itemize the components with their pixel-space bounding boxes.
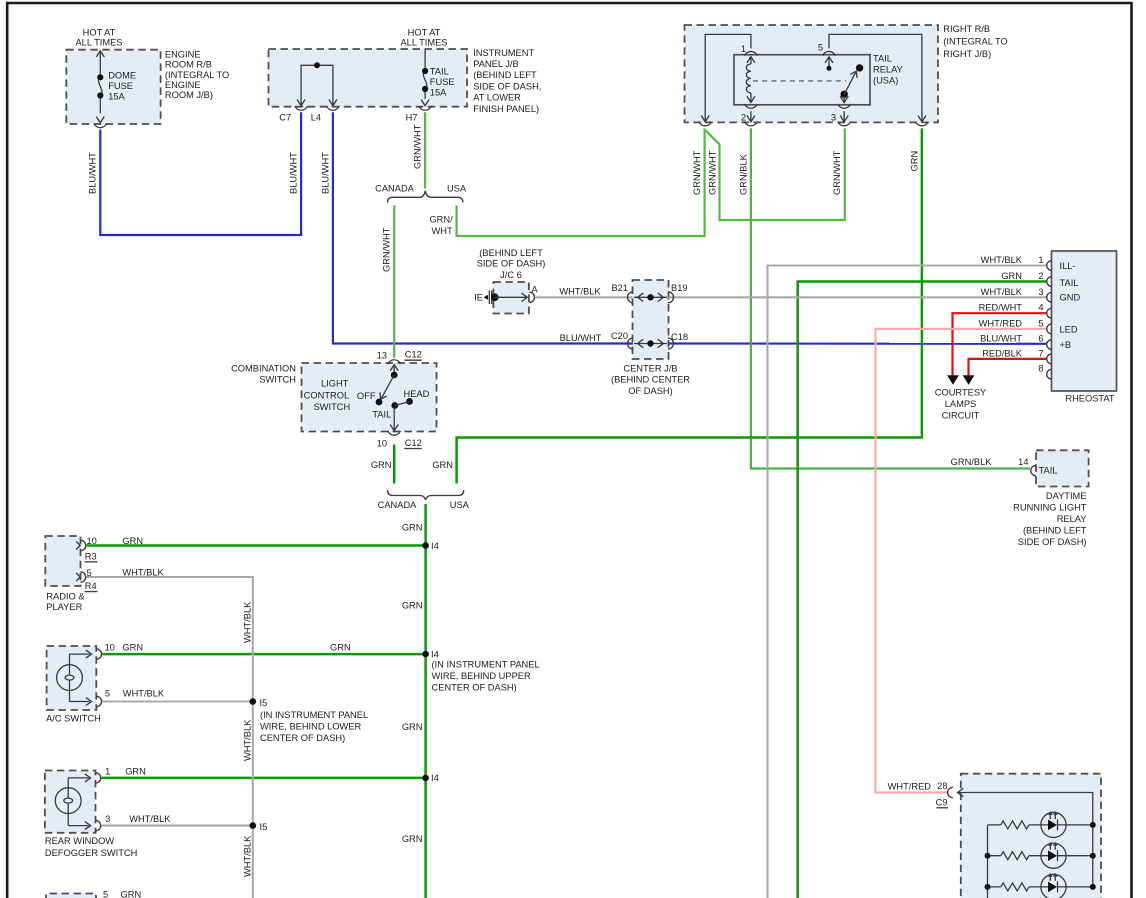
svg-text:RED/BLK: RED/BLK bbox=[982, 348, 1023, 358]
svg-text:WHT/BLK: WHT/BLK bbox=[981, 287, 1023, 297]
svg-text:IE: IE bbox=[474, 293, 483, 303]
svg-text:WIRE, BEHIND UPPER: WIRE, BEHIND UPPER bbox=[432, 671, 531, 681]
A/C switch lamp and wiring bbox=[57, 649, 102, 707]
svg-text:WHT/BLK: WHT/BLK bbox=[981, 255, 1023, 265]
junction I4 node 3 bbox=[422, 775, 429, 782]
tail relay U1 inner box bbox=[734, 55, 870, 105]
svg-text:ENGINE: ENGINE bbox=[165, 80, 201, 90]
illumination row 3: resistor and LED bbox=[985, 874, 1096, 898]
svg-text:DEFOGGER SWITCH: DEFOGGER SWITCH bbox=[45, 848, 137, 858]
svg-text:GRN: GRN bbox=[122, 643, 143, 653]
wire WHT/BLK A/C switch pin 5 bbox=[102, 700, 253, 702]
relay pin 3 bump bbox=[838, 104, 851, 108]
svg-text:(USA): (USA) bbox=[873, 76, 898, 86]
svg-text:GRN: GRN bbox=[432, 460, 453, 470]
svg-text:HEAD: HEAD bbox=[404, 389, 430, 399]
daytime running light relay TAIL box bbox=[1036, 450, 1089, 486]
svg-text:H7: H7 bbox=[406, 113, 418, 123]
svg-text:R4: R4 bbox=[85, 581, 97, 591]
svg-text:5: 5 bbox=[818, 42, 823, 52]
svg-text:(BEHIND LEFT: (BEHIND LEFT bbox=[479, 248, 543, 258]
svg-text:5: 5 bbox=[87, 568, 92, 578]
engine room R/B box bbox=[66, 50, 160, 124]
junction connector J/C6 internals bbox=[484, 291, 528, 305]
svg-text:14: 14 bbox=[1018, 457, 1028, 467]
svg-text:1: 1 bbox=[741, 44, 746, 54]
junction I4 node 2 bbox=[422, 651, 429, 658]
svg-text:PANEL J/B: PANEL J/B bbox=[473, 59, 518, 69]
light control switch SW1 internals bbox=[376, 360, 413, 435]
relay pin3 wire to exit bbox=[843, 111, 845, 121]
svg-text:2: 2 bbox=[1038, 271, 1043, 281]
connector exits on right R/B box bbox=[699, 122, 712, 126]
svg-text:BLU/WHT: BLU/WHT bbox=[88, 152, 98, 194]
illumination C9 box bbox=[961, 774, 1101, 898]
junction I4 node 1 bbox=[422, 542, 429, 549]
wire GRN rheostat TAIL pin 2 down off page bbox=[798, 282, 1047, 898]
svg-text:TAIL: TAIL bbox=[372, 409, 391, 419]
svg-text:R3: R3 bbox=[85, 551, 97, 561]
wire GRN A/C switch pin 10 bbox=[102, 653, 425, 656]
relay pin5 wire to exit bbox=[829, 34, 922, 121]
svg-text:RIGHT R/B: RIGHT R/B bbox=[943, 24, 990, 34]
svg-text:ALL TIMES: ALL TIMES bbox=[75, 38, 122, 48]
svg-text:SIDE OF DASH,: SIDE OF DASH, bbox=[473, 81, 541, 91]
svg-text:CENTER OF DASH): CENTER OF DASH) bbox=[432, 683, 517, 693]
junction I5 node 2 bbox=[250, 822, 257, 829]
C9 left bus bbox=[987, 825, 989, 898]
relay pin1 wire to exit bbox=[705, 34, 751, 121]
illumination row 2: resistor and LED bbox=[985, 843, 1096, 868]
svg-text:8: 8 bbox=[1038, 364, 1043, 374]
courtesy lamps circuit arrow 2 bbox=[963, 375, 975, 385]
wire GRN radio pin 10 bbox=[87, 544, 426, 547]
connector A on J/C6 bbox=[529, 292, 534, 302]
relay switch contact bbox=[828, 57, 830, 67]
svg-text:GRN/WHT: GRN/WHT bbox=[413, 124, 423, 169]
svg-text:BLU/WHT: BLU/WHT bbox=[289, 152, 299, 194]
svg-text:13: 13 bbox=[377, 350, 387, 360]
svg-text:I4: I4 bbox=[431, 773, 439, 783]
svg-text:1: 1 bbox=[105, 766, 110, 776]
svg-text:GRN: GRN bbox=[402, 834, 423, 844]
wire BLU/WHT L4 to rheostat +B pin 6 bbox=[333, 112, 633, 343]
defogger switch lamp and wiring bbox=[55, 773, 100, 831]
daytime running light relay connector 14 bbox=[1031, 465, 1036, 475]
svg-text:15A: 15A bbox=[430, 87, 447, 97]
svg-text:B21: B21 bbox=[611, 283, 628, 293]
svg-text:J/C 6: J/C 6 bbox=[500, 270, 522, 280]
svg-text:RELAY: RELAY bbox=[1057, 514, 1087, 524]
svg-text:4: 4 bbox=[1038, 303, 1043, 313]
wire GRN defogger pin 1 bbox=[102, 777, 426, 780]
svg-text:WHT/BLK: WHT/BLK bbox=[242, 835, 252, 877]
wire GRN/WHT CANADA branch to light control switch pin 13 bbox=[393, 206, 395, 358]
center J/B row B21-B19 bbox=[628, 292, 674, 303]
svg-text:PLAYER: PLAYER bbox=[46, 602, 82, 612]
svg-text:AT LOWER: AT LOWER bbox=[473, 93, 521, 103]
svg-text:TAIL: TAIL bbox=[1039, 466, 1058, 476]
bottom partial box bbox=[46, 894, 96, 898]
rheostat box bbox=[1052, 251, 1117, 391]
svg-text:BLU/WHT: BLU/WHT bbox=[320, 152, 330, 194]
svg-text:WHT/RED: WHT/RED bbox=[979, 318, 1023, 328]
svg-text:(BEHIND LEFT: (BEHIND LEFT bbox=[473, 70, 537, 80]
connector L4 bbox=[327, 106, 340, 110]
wire GRN/WHT relay pin 3 link bbox=[706, 128, 845, 220]
svg-text:INSTRUMENT: INSTRUMENT bbox=[473, 48, 534, 58]
rheostat pin connectors 1-8 bbox=[1047, 261, 1052, 379]
tail relay U1 internals bbox=[701, 34, 926, 121]
svg-text:LAMPS: LAMPS bbox=[945, 399, 977, 409]
svg-text:HOT AT: HOT AT bbox=[83, 27, 116, 37]
svg-text:6: 6 bbox=[1038, 333, 1043, 343]
relay pin 1 bump bbox=[745, 51, 758, 55]
connector below dome fuse bbox=[94, 123, 107, 127]
svg-text:ILL-: ILL- bbox=[1060, 261, 1076, 271]
relay pin 5 bump bbox=[823, 51, 836, 55]
svg-text:28: 28 bbox=[937, 781, 947, 791]
svg-text:C18: C18 bbox=[671, 332, 688, 342]
svg-text:CONTROL: CONTROL bbox=[304, 390, 349, 400]
tail fuse F2 bbox=[421, 50, 429, 106]
svg-text:10: 10 bbox=[377, 439, 387, 449]
wire WHT/BLK defogger pin 3 bbox=[102, 825, 253, 827]
svg-text:SWITCH: SWITCH bbox=[314, 402, 351, 412]
svg-text:OFF: OFF bbox=[357, 391, 376, 401]
svg-text:WIRE, BEHIND LOWER: WIRE, BEHIND LOWER bbox=[260, 722, 362, 732]
svg-text:(IN INSTRUMENT PANEL: (IN INSTRUMENT PANEL bbox=[260, 710, 368, 720]
svg-text:10: 10 bbox=[87, 536, 97, 546]
A/C switch box bbox=[47, 646, 97, 710]
wire WHT/BLK radio pin 5 down off page bbox=[87, 577, 253, 898]
C9 internal top wire bbox=[958, 788, 1093, 887]
brace CANADA/USA upper bbox=[388, 191, 463, 203]
svg-text:5: 5 bbox=[103, 890, 108, 898]
svg-text:GRN: GRN bbox=[402, 523, 423, 533]
instrument panel internal wiring to C7 and L4 bbox=[297, 62, 337, 105]
svg-text:GRN/WHT: GRN/WHT bbox=[832, 150, 842, 195]
svg-text:LED: LED bbox=[1060, 324, 1078, 334]
svg-text:GRN: GRN bbox=[402, 601, 423, 611]
wire GRN relay pin 5 to USA brace bbox=[457, 128, 922, 483]
center J/B box bbox=[633, 280, 669, 359]
svg-text:FINISH PANEL): FINISH PANEL) bbox=[473, 104, 539, 114]
svg-text:GRN/BLK: GRN/BLK bbox=[951, 457, 993, 467]
svg-text:GRN/: GRN/ bbox=[429, 215, 453, 225]
svg-text:3: 3 bbox=[831, 112, 836, 122]
svg-text:RED/WHT: RED/WHT bbox=[979, 303, 1023, 313]
svg-text:I5: I5 bbox=[260, 822, 268, 832]
svg-text:GRN: GRN bbox=[330, 643, 351, 653]
wire GRN main distribution bbox=[424, 504, 427, 898]
svg-text:COMBINATION: COMBINATION bbox=[231, 363, 296, 373]
instrument panel J/B box bbox=[269, 49, 468, 107]
svg-text:WHT: WHT bbox=[432, 226, 453, 236]
svg-text:I4: I4 bbox=[431, 541, 439, 551]
svg-text:C7: C7 bbox=[279, 113, 291, 123]
svg-text:COURTESY: COURTESY bbox=[935, 388, 987, 398]
svg-text:REAR WINDOW: REAR WINDOW bbox=[45, 836, 114, 846]
connector C7 bbox=[295, 106, 308, 110]
junction I5 node 1 bbox=[250, 698, 257, 705]
svg-text:GRN: GRN bbox=[402, 722, 423, 732]
svg-text:B19: B19 bbox=[671, 283, 688, 293]
radio connector R4 bbox=[76, 572, 86, 582]
wire BLU/WHT dome fuse to C7 bbox=[100, 112, 301, 235]
svg-text:GRN: GRN bbox=[1001, 271, 1022, 281]
svg-text:1: 1 bbox=[1038, 255, 1043, 265]
svg-text:SIDE OF DASH): SIDE OF DASH) bbox=[1018, 537, 1087, 547]
wire GRN/WHT H7 stub bbox=[424, 112, 426, 188]
svg-text:WHT/BLK: WHT/BLK bbox=[242, 719, 252, 761]
svg-text:CENTER OF DASH): CENTER OF DASH) bbox=[260, 733, 345, 743]
svg-text:ALL TIMES: ALL TIMES bbox=[400, 38, 447, 48]
svg-text:+B: +B bbox=[1060, 340, 1072, 350]
svg-text:ENGINE: ENGINE bbox=[165, 49, 201, 59]
svg-text:WHT/BLK: WHT/BLK bbox=[129, 814, 171, 824]
svg-text:2: 2 bbox=[741, 112, 746, 122]
relay coil bbox=[750, 57, 752, 65]
svg-text:A/C SWITCH: A/C SWITCH bbox=[46, 714, 101, 724]
C9 connector 28 bbox=[948, 787, 953, 797]
svg-text:5: 5 bbox=[105, 689, 110, 699]
svg-text:GRN: GRN bbox=[122, 536, 143, 546]
svg-text:7: 7 bbox=[1038, 348, 1043, 358]
connector H7 bbox=[419, 106, 432, 110]
wire GRN/WHT USA branch to right R/B bbox=[457, 128, 705, 236]
svg-text:GRN/WHT: GRN/WHT bbox=[692, 150, 702, 195]
center J/B row C20-C18 bbox=[628, 338, 674, 349]
svg-text:(IN INSTRUMENT PANEL: (IN INSTRUMENT PANEL bbox=[432, 660, 540, 670]
svg-text:ROOM R/B: ROOM R/B bbox=[165, 60, 212, 70]
svg-text:RIGHT J/B): RIGHT J/B) bbox=[943, 49, 991, 59]
svg-text:I5: I5 bbox=[260, 698, 268, 708]
svg-text:SWITCH: SWITCH bbox=[259, 374, 296, 384]
svg-text:CIRCUIT: CIRCUIT bbox=[942, 411, 980, 421]
svg-text:C20: C20 bbox=[611, 331, 628, 341]
svg-text:RADIO &: RADIO & bbox=[46, 592, 85, 602]
svg-text:I4: I4 bbox=[431, 649, 439, 659]
wire RED/BLK rheostat pin 7 to courtesy lamps bbox=[969, 359, 1047, 376]
svg-text:15A: 15A bbox=[108, 91, 125, 101]
svg-text:RUNNING LIGHT: RUNNING LIGHT bbox=[1013, 503, 1087, 513]
svg-text:FUSE: FUSE bbox=[108, 81, 133, 91]
svg-text:BLU/WHT: BLU/WHT bbox=[560, 333, 602, 343]
svg-text:ROOM J/B): ROOM J/B) bbox=[165, 90, 213, 100]
svg-text:WHT/RED: WHT/RED bbox=[888, 782, 932, 792]
svg-text:TAIL: TAIL bbox=[873, 54, 892, 64]
svg-text:WHT/BLK: WHT/BLK bbox=[242, 601, 252, 643]
svg-text:TAIL: TAIL bbox=[1060, 278, 1079, 288]
svg-text:SIDE OF DASH): SIDE OF DASH) bbox=[477, 258, 546, 268]
svg-text:GRN: GRN bbox=[909, 151, 919, 172]
svg-text:GRN/BLK: GRN/BLK bbox=[738, 153, 748, 195]
svg-text:GND: GND bbox=[1060, 292, 1081, 302]
combination switch box bbox=[302, 363, 437, 432]
svg-text:RHEOSTAT: RHEOSTAT bbox=[1065, 394, 1115, 404]
svg-text:10: 10 bbox=[105, 643, 115, 653]
svg-text:TAIL: TAIL bbox=[430, 66, 449, 76]
svg-text:A: A bbox=[532, 285, 539, 295]
svg-text:WHT/BLK: WHT/BLK bbox=[122, 567, 164, 577]
wire GRN light control switch pin 10 to brace bbox=[393, 445, 396, 484]
wire GRN/BLK relay pin 2 to daytime running light relay bbox=[751, 128, 1030, 468]
svg-text:CANADA: CANADA bbox=[378, 500, 418, 510]
radio connector R3 bbox=[76, 540, 86, 550]
svg-text:C12: C12 bbox=[405, 350, 422, 360]
right R/B box bbox=[685, 25, 939, 122]
svg-text:CANADA: CANADA bbox=[375, 183, 415, 193]
relay pin 2 bump bbox=[745, 104, 758, 108]
svg-text:FUSE: FUSE bbox=[430, 77, 455, 87]
svg-text:GRN: GRN bbox=[125, 766, 146, 776]
svg-text:(INTEGRAL TO: (INTEGRAL TO bbox=[165, 70, 229, 80]
svg-text:5: 5 bbox=[1038, 318, 1043, 328]
svg-text:(BEHIND CENTER: (BEHIND CENTER bbox=[611, 375, 690, 385]
junction connector J/C 6 box bbox=[493, 282, 529, 314]
svg-text:CENTER J/B: CENTER J/B bbox=[623, 363, 677, 373]
svg-text:C12: C12 bbox=[405, 438, 422, 448]
svg-text:L4: L4 bbox=[311, 113, 321, 123]
svg-text:OF DASH): OF DASH) bbox=[628, 386, 672, 396]
wire RED/WHT rheostat pin 4 to courtesy lamps bbox=[953, 313, 1047, 375]
svg-text:GRN/WHT: GRN/WHT bbox=[382, 227, 392, 272]
svg-text:RELAY: RELAY bbox=[873, 65, 903, 75]
relay pin2 wire to exit bbox=[750, 111, 752, 121]
brace CANADA/USA lower bbox=[388, 490, 464, 500]
wire WHT/RED rheostat LED pin 5 to C9 bbox=[876, 329, 1047, 793]
svg-text:HOT AT: HOT AT bbox=[408, 27, 441, 37]
wire WHT/BLK rheostat ILL- pin 1 down off page bbox=[768, 266, 1047, 898]
svg-text:BLU/WHT: BLU/WHT bbox=[980, 333, 1022, 343]
rear window defogger switch box bbox=[45, 771, 96, 833]
svg-text:USA: USA bbox=[450, 500, 470, 510]
relay divider dashed line bbox=[753, 80, 846, 82]
svg-text:LIGHT: LIGHT bbox=[321, 379, 349, 389]
dome fuse F1 bbox=[96, 51, 104, 123]
svg-text:GRN/WHT: GRN/WHT bbox=[707, 150, 717, 195]
svg-text:3: 3 bbox=[105, 814, 110, 824]
courtesy lamps circuit arrow 1 bbox=[947, 375, 959, 385]
radio and player box bbox=[45, 536, 80, 586]
svg-text:GRN: GRN bbox=[121, 890, 142, 898]
svg-text:3: 3 bbox=[1038, 287, 1043, 297]
svg-text:(BEHIND LEFT: (BEHIND LEFT bbox=[1023, 526, 1087, 536]
svg-text:(INTEGRAL TO: (INTEGRAL TO bbox=[943, 37, 1007, 47]
svg-text:C9: C9 bbox=[936, 798, 948, 808]
svg-text:WHT/BLK: WHT/BLK bbox=[559, 287, 601, 297]
svg-text:WHT/BLK: WHT/BLK bbox=[123, 689, 165, 699]
svg-text:DAYTIME: DAYTIME bbox=[1046, 491, 1087, 501]
svg-text:GRN: GRN bbox=[371, 460, 392, 470]
svg-text:USA: USA bbox=[447, 183, 467, 193]
illumination row 1: resistor and LED bbox=[988, 812, 1096, 837]
svg-text:DOME: DOME bbox=[108, 71, 136, 81]
wire WHT/BLK junction connector to rheostat GND pin 3 bbox=[536, 296, 633, 298]
